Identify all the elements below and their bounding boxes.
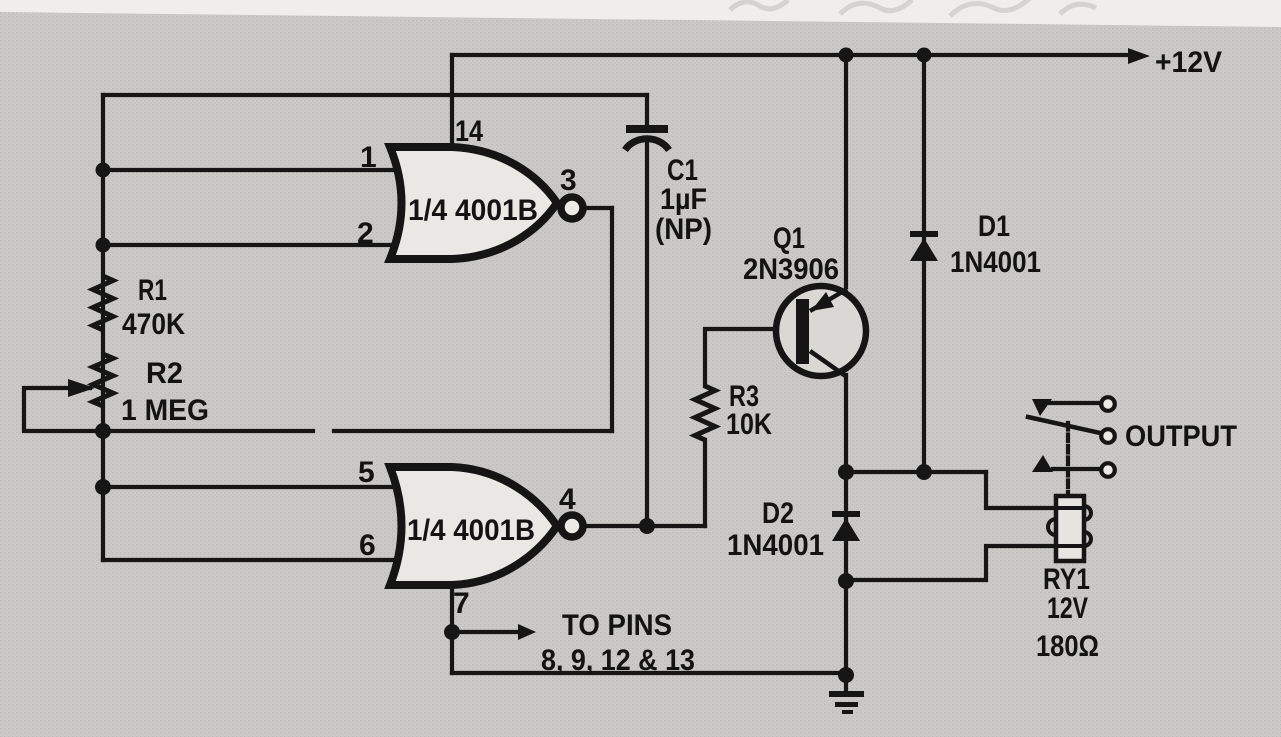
node ground [838,667,854,683]
node C1-gate2 output [639,518,655,534]
wire main vertical below Q1 [844,375,848,675]
output terminal middle [1101,429,1115,443]
svg-text:10K: 10K [726,408,772,441]
wire pin 7 arrow line [452,630,518,634]
relay NC contact triangle [1032,399,1052,416]
wire relay coil bottom link [846,546,1054,580]
wire feedback vertical [610,208,614,431]
wire bottom return [452,671,846,675]
capacitor C1 top plate [626,125,668,133]
diode D1 [910,231,938,261]
svg-text:R1: R1 [138,274,167,307]
resistor R2 potentiometer [93,354,113,406]
transistor Q1 circle [776,286,866,376]
svg-text:1/4 4001B: 1/4 4001B [407,514,535,547]
wire +12V rail [452,53,1132,57]
svg-text:1/4 4001B: 1/4 4001B [408,194,538,227]
wire R2 wiper [24,388,99,431]
wire horizontal node row [846,470,986,474]
op-amp U1a NOR gate body [390,147,557,259]
faint handwriting top right [730,0,1096,16]
svg-text:1µF: 1µF [660,183,707,216]
ground [829,691,864,714]
node pin5 bus [95,479,111,495]
svg-text:D2: D2 [762,497,794,530]
wire C1 bottom lead [645,141,649,526]
U1a output bubble [561,197,583,219]
node collector row D1 [916,464,932,480]
svg-text:(NP): (NP) [655,213,712,246]
svg-text:2N3906: 2N3906 [743,253,839,286]
svg-text:3: 3 [560,164,577,197]
capacitor C1 curved plate [625,139,669,150]
wire R3 bottom lead [703,440,707,526]
+12V arrowhead [1128,48,1150,64]
wire relay pole arm [1028,417,1100,433]
resistor R3 [695,386,715,440]
svg-text:4: 4 [559,483,576,516]
svg-text:TO PINS: TO PINS [562,609,672,642]
svg-text:8, 9, 12 & 13: 8, 9, 12 & 13 [541,644,695,677]
wire pin 2 [103,243,392,247]
svg-text:180Ω: 180Ω [1036,630,1099,663]
wire relay NC contact [1048,401,1100,405]
svg-text:1: 1 [360,141,377,174]
node rail-Q1 [839,48,854,63]
pin 7 arrowhead [518,624,536,640]
top white strip [0,0,1281,27]
svg-text:1N4001: 1N4001 [727,529,824,562]
wire D1 vertical [922,55,926,471]
node D2 bottom [838,573,854,589]
node collector row left [838,464,854,480]
node pin7 [444,624,460,640]
wire gate2 output [586,524,705,528]
svg-text:6: 6 [359,529,376,562]
svg-text:1N4001: 1N4001 [950,246,1041,279]
wire relay coil top link [986,472,1054,508]
wire gate1 output stub [586,206,612,210]
Q1 base bar [796,299,809,364]
wire pin 7 drop [450,586,454,673]
svg-text:5: 5 [358,456,375,489]
wire left bus [101,95,105,560]
wire relay NO contact [1053,467,1100,471]
output terminal top [1101,397,1115,411]
node pin1 bus [96,163,111,178]
wire pin14 drop [450,55,454,147]
svg-text:14: 14 [455,115,483,148]
svg-text:D1: D1 [978,210,1010,243]
wire C1 top lead [645,95,649,126]
svg-text:12V: 12V [1047,592,1088,625]
relay NO contact triangle [1032,455,1053,472]
diode D2 [832,511,860,541]
U1b output bubble [561,515,583,537]
svg-text:470K: 470K [122,308,185,341]
node rail-D1 [917,48,932,63]
Q1 collector lead [810,351,847,377]
Q1 emitter arrowhead [811,292,834,311]
wire feedback right segment [334,429,612,433]
svg-text:1 MEG: 1 MEG [121,394,209,427]
wire pin 1 [103,168,392,172]
wire pin 6 [103,558,392,562]
output terminal bottom [1101,463,1115,477]
node wiper bus [95,423,111,439]
wire feedback left segment [103,429,313,433]
svg-text:7: 7 [453,587,470,620]
wire Q1 collector rail top [844,55,848,287]
wire R3 top lead and Q1 base [705,329,796,386]
node pin2 bus [96,238,111,253]
wire ground stub [844,675,848,691]
svg-text:R2: R2 [146,357,183,390]
wire pin 5 [103,485,392,489]
wire top link to C1 [103,93,647,97]
svg-text:Q1: Q1 [773,222,805,255]
Q1 emitter lead [810,289,847,311]
resistor R1 [93,276,113,330]
wire relay actuator dashed link [1066,423,1070,496]
op-amp U1b NOR gate body [390,467,557,585]
node dots [95,48,932,684]
R2 wiper arrowhead [68,379,95,397]
svg-text:OUTPUT: OUTPUT [1125,420,1237,453]
svg-text:2: 2 [357,217,374,250]
relay RY1 coil [1048,496,1091,561]
svg-text:+12V: +12V [1155,46,1222,79]
